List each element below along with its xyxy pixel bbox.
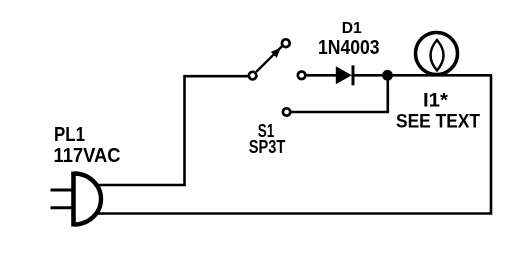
svg-text:1N4003: 1N4003 bbox=[318, 37, 380, 59]
svg-text:I1*: I1* bbox=[423, 90, 449, 111]
svg-text:PL1: PL1 bbox=[54, 123, 85, 146]
svg-text:117VAC: 117VAC bbox=[54, 144, 121, 167]
svg-text:D1: D1 bbox=[342, 20, 362, 37]
svg-text:SEE TEXT: SEE TEXT bbox=[396, 111, 480, 132]
svg-text:SP3T: SP3T bbox=[249, 137, 286, 157]
